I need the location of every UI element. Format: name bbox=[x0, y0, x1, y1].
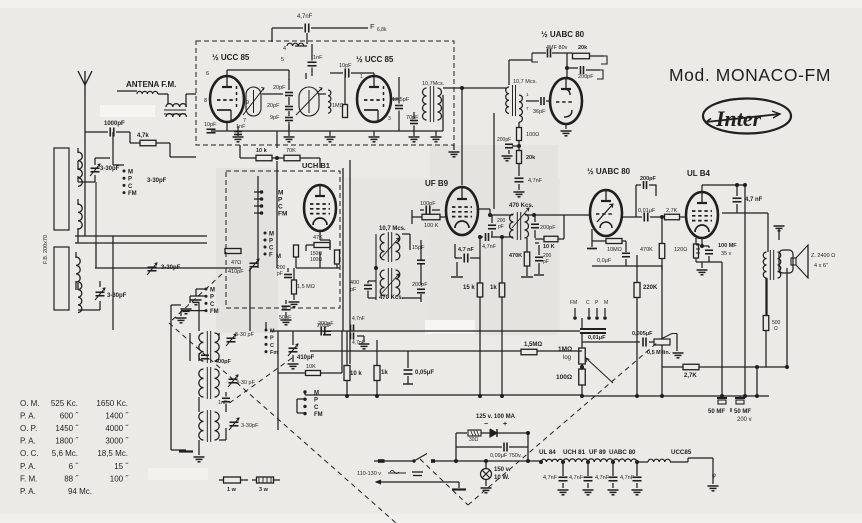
svg-text:1000pF: 1000pF bbox=[104, 121, 125, 127]
svg-text:200pF: 200pF bbox=[412, 282, 428, 288]
svg-text:P: P bbox=[278, 197, 283, 204]
svg-text:−: − bbox=[484, 421, 488, 428]
svg-text:120Ω: 120Ω bbox=[674, 247, 687, 253]
svg-text:M: M bbox=[269, 232, 274, 238]
svg-text:O. M.: O. M. bbox=[20, 399, 40, 408]
svg-text:½ UCC 85: ½ UCC 85 bbox=[356, 55, 394, 64]
svg-text:100 ˝: 100 ˝ bbox=[110, 474, 130, 483]
svg-text:C: C bbox=[314, 405, 319, 411]
svg-text:10,7 Mcs.: 10,7 Mcs. bbox=[513, 79, 537, 85]
svg-text:200pF: 200pF bbox=[497, 137, 511, 143]
svg-text:220K: 220K bbox=[643, 285, 658, 291]
svg-text:log: log bbox=[563, 355, 571, 361]
svg-text:2,7K: 2,7K bbox=[666, 208, 678, 214]
svg-text:Mod. MONACO-FM: Mod. MONACO-FM bbox=[669, 65, 831, 85]
svg-text:C: C bbox=[210, 302, 215, 308]
svg-text:Ω: Ω bbox=[774, 326, 778, 332]
svg-text:UCC85: UCC85 bbox=[671, 449, 692, 456]
svg-text:70K: 70K bbox=[286, 148, 296, 154]
svg-text:4,7nF: 4,7nF bbox=[482, 244, 497, 250]
svg-text:F.B. 200x70: F.B. 200x70 bbox=[43, 235, 49, 264]
svg-text:FM: FM bbox=[210, 309, 219, 315]
svg-text:0,01μF: 0,01μF bbox=[638, 208, 656, 214]
svg-text:P. A.: P. A. bbox=[20, 487, 36, 496]
svg-text:3-30 pF: 3-30 pF bbox=[235, 332, 255, 338]
svg-text:1400 ˝: 1400 ˝ bbox=[105, 412, 129, 421]
svg-text:94 Mc.: 94 Mc. bbox=[68, 487, 92, 496]
svg-text:UABC 80: UABC 80 bbox=[609, 449, 636, 456]
svg-text:F: F bbox=[269, 253, 273, 259]
svg-text:1: 1 bbox=[360, 74, 363, 80]
svg-text:M: M bbox=[604, 300, 608, 306]
svg-text:F. M.: F. M. bbox=[20, 474, 37, 483]
svg-text:C: C bbox=[269, 246, 274, 252]
svg-text:3-30pF: 3-30pF bbox=[100, 166, 120, 172]
svg-text:10,7 Mcs.: 10,7 Mcs. bbox=[379, 226, 406, 232]
svg-text:O. C.: O. C. bbox=[20, 449, 39, 458]
svg-text:20pF: 20pF bbox=[267, 103, 280, 109]
svg-text:125 v. 100 MA: 125 v. 100 MA bbox=[476, 414, 516, 420]
svg-text:10MΩ: 10MΩ bbox=[607, 247, 622, 253]
svg-text:525 Kc.: 525 Kc. bbox=[51, 399, 78, 408]
svg-text:6 ˝: 6 ˝ bbox=[69, 462, 80, 471]
svg-text:50 MF: 50 MF bbox=[708, 409, 725, 415]
svg-text:15pF: 15pF bbox=[412, 245, 425, 251]
svg-text:1k: 1k bbox=[381, 370, 388, 376]
svg-text:410pF: 410pF bbox=[297, 355, 315, 361]
svg-text:2: 2 bbox=[356, 93, 359, 99]
svg-text:4 x 6″: 4 x 6″ bbox=[814, 263, 828, 269]
svg-text:FM: FM bbox=[570, 300, 577, 306]
svg-text:4,7nF: 4,7nF bbox=[528, 178, 543, 184]
svg-text:P. A.: P. A. bbox=[20, 437, 36, 446]
svg-text:½ UABC 80: ½ UABC 80 bbox=[541, 30, 585, 39]
svg-text:10 k: 10 k bbox=[350, 371, 362, 377]
svg-text:UCH 81: UCH 81 bbox=[563, 449, 586, 456]
svg-text:100pF: 100pF bbox=[420, 201, 436, 207]
svg-text:47Ω: 47Ω bbox=[231, 260, 241, 266]
svg-text:4,7nF: 4,7nF bbox=[569, 475, 584, 481]
svg-text:200pF: 200pF bbox=[640, 176, 657, 182]
svg-text:FM: FM bbox=[128, 191, 137, 197]
svg-text:20k: 20k bbox=[526, 155, 536, 161]
svg-text:1 w: 1 w bbox=[227, 487, 237, 493]
svg-text:pF: pF bbox=[543, 259, 549, 265]
svg-text:F: F bbox=[370, 22, 375, 31]
svg-text:0,5 M lin.: 0,5 M lin. bbox=[647, 350, 671, 356]
svg-text:1450 ˝: 1450 ˝ bbox=[55, 424, 79, 433]
svg-text:10 k: 10 k bbox=[256, 148, 268, 154]
svg-text:10K: 10K bbox=[306, 364, 316, 370]
svg-text:3 w: 3 w bbox=[259, 487, 269, 493]
svg-text:88 ˝: 88 ˝ bbox=[64, 474, 79, 483]
svg-text:φ: φ bbox=[712, 473, 716, 479]
svg-text:600 ˝: 600 ˝ bbox=[60, 412, 80, 421]
svg-text:5,6 Mc.: 5,6 Mc. bbox=[52, 449, 78, 458]
svg-text:410pF: 410pF bbox=[228, 269, 244, 275]
svg-text:FM: FM bbox=[278, 211, 287, 218]
svg-text:12,5pF: 12,5pF bbox=[392, 97, 410, 103]
svg-text:30Ω: 30Ω bbox=[469, 437, 479, 443]
svg-text:UL B4: UL B4 bbox=[687, 169, 711, 178]
svg-text:½ UCC 85: ½ UCC 85 bbox=[212, 53, 250, 62]
svg-text:pF: pF bbox=[277, 271, 283, 277]
svg-text:M: M bbox=[276, 254, 281, 260]
svg-text:9pF: 9pF bbox=[270, 115, 280, 121]
svg-text:P: P bbox=[314, 398, 318, 404]
svg-text:10pF: 10pF bbox=[204, 122, 217, 128]
svg-text:1,5 MΩ: 1,5 MΩ bbox=[297, 284, 315, 290]
svg-text:200pF: 200pF bbox=[317, 323, 331, 329]
svg-text:4,7nF: 4,7nF bbox=[352, 340, 365, 346]
svg-text:200pF: 200pF bbox=[578, 74, 594, 80]
svg-text:4,7 nF: 4,7 nF bbox=[458, 247, 475, 253]
svg-text:pF: pF bbox=[498, 224, 504, 230]
svg-text:1k: 1k bbox=[490, 285, 497, 291]
svg-text:1650 Kc.: 1650 Kc. bbox=[96, 399, 128, 408]
svg-text:+: + bbox=[503, 421, 507, 428]
svg-text:4,7nF: 4,7nF bbox=[543, 475, 558, 481]
svg-text:P: P bbox=[128, 177, 132, 183]
svg-text:470K: 470K bbox=[640, 247, 653, 253]
svg-text:5: 5 bbox=[281, 57, 284, 63]
svg-text:C: C bbox=[270, 343, 274, 349]
svg-text:UF 89: UF 89 bbox=[589, 449, 606, 456]
svg-text:C: C bbox=[586, 300, 590, 306]
svg-text:4,7k: 4,7k bbox=[137, 133, 149, 139]
svg-text:20pF: 20pF bbox=[273, 85, 286, 91]
svg-text:400: 400 bbox=[350, 280, 359, 286]
svg-text:4,7nF: 4,7nF bbox=[620, 475, 635, 481]
svg-text:½ UABC 80: ½ UABC 80 bbox=[587, 167, 631, 176]
svg-text:3000 ˝: 3000 ˝ bbox=[105, 437, 129, 446]
svg-text:35 v: 35 v bbox=[721, 251, 732, 257]
svg-text:100Ω: 100Ω bbox=[556, 374, 572, 381]
svg-text:M: M bbox=[278, 190, 283, 197]
svg-text:200 v: 200 v bbox=[737, 417, 752, 423]
svg-text:50 MF: 50 MF bbox=[734, 409, 751, 415]
svg-text:10 K: 10 K bbox=[543, 244, 555, 250]
svg-text:Z. 2400 Ω: Z. 2400 Ω bbox=[811, 253, 835, 259]
svg-text:470K: 470K bbox=[509, 253, 522, 259]
svg-text:2,7K: 2,7K bbox=[684, 373, 697, 379]
svg-text:C: C bbox=[128, 184, 133, 190]
svg-text:UF B9: UF B9 bbox=[425, 179, 449, 188]
svg-text:0,01μF: 0,01μF bbox=[588, 335, 606, 341]
svg-text:0,0μF: 0,0μF bbox=[597, 258, 612, 264]
svg-text:1MΩ: 1MΩ bbox=[558, 346, 572, 353]
svg-text:470 Kcs.: 470 Kcs. bbox=[509, 203, 534, 209]
svg-text:M: M bbox=[210, 288, 215, 294]
svg-text:200pF: 200pF bbox=[540, 225, 556, 231]
svg-text:pF: pF bbox=[350, 287, 357, 293]
svg-text:3-30pF: 3-30pF bbox=[147, 178, 167, 184]
svg-text:1,5MΩ: 1,5MΩ bbox=[524, 342, 542, 348]
svg-text:UL 84: UL 84 bbox=[539, 449, 556, 456]
svg-text:8: 8 bbox=[204, 98, 207, 104]
svg-text:6: 6 bbox=[206, 71, 209, 77]
svg-text:P: P bbox=[270, 336, 274, 342]
svg-text:1nF: 1nF bbox=[313, 55, 323, 61]
svg-text:C: C bbox=[278, 204, 283, 211]
svg-text:M: M bbox=[314, 391, 319, 397]
svg-text:100 K: 100 K bbox=[424, 223, 439, 229]
svg-text:3-30pF: 3-30pF bbox=[107, 293, 127, 299]
svg-text:36pF: 36pF bbox=[533, 109, 546, 115]
svg-text:110-130 v: 110-130 v bbox=[357, 471, 381, 477]
svg-text:100 MF: 100 MF bbox=[718, 243, 737, 249]
svg-text:400pF: 400pF bbox=[215, 359, 232, 365]
svg-text:150 v.: 150 v. bbox=[494, 467, 511, 473]
svg-text:4,7nF: 4,7nF bbox=[352, 316, 365, 322]
svg-text:UCH B1: UCH B1 bbox=[302, 161, 330, 170]
svg-text:6,8k: 6,8k bbox=[377, 27, 387, 33]
svg-text:0,005μF: 0,005μF bbox=[632, 331, 653, 337]
svg-text:M: M bbox=[128, 170, 133, 176]
svg-text:100Ω: 100Ω bbox=[526, 132, 539, 138]
svg-text:15 ˝: 15 ˝ bbox=[114, 462, 129, 471]
svg-text:P. A.: P. A. bbox=[20, 412, 36, 421]
svg-text:Fm: Fm bbox=[270, 350, 278, 356]
svg-text:10pF: 10pF bbox=[339, 63, 352, 69]
svg-text:18,5 Mc.: 18,5 Mc. bbox=[97, 449, 128, 458]
svg-text:O. P.: O. P. bbox=[20, 424, 37, 433]
svg-text:1800 ˝: 1800 ˝ bbox=[55, 437, 79, 446]
svg-text:ANTENA F.M.: ANTENA F.M. bbox=[126, 80, 176, 89]
svg-text:4: 4 bbox=[283, 46, 286, 52]
svg-text:P: P bbox=[210, 295, 214, 301]
svg-text:3: 3 bbox=[388, 116, 391, 122]
svg-text:P. A.: P. A. bbox=[20, 462, 36, 471]
svg-text:20k: 20k bbox=[578, 45, 588, 51]
svg-text:FM: FM bbox=[314, 412, 323, 418]
svg-text:0,05μF: 0,05μF bbox=[415, 370, 434, 376]
svg-text:4,7nF: 4,7nF bbox=[595, 475, 610, 481]
svg-text:0,09μF 750v.: 0,09μF 750v. bbox=[490, 453, 522, 459]
svg-text:4,7 nF: 4,7 nF bbox=[745, 197, 763, 203]
svg-text:4000 ˝: 4000 ˝ bbox=[105, 424, 129, 433]
svg-text:15 k: 15 k bbox=[463, 285, 475, 291]
svg-text:4MF 80v: 4MF 80v bbox=[546, 45, 568, 51]
svg-text:3-30pF: 3-30pF bbox=[241, 423, 259, 429]
svg-text:P: P bbox=[269, 239, 273, 245]
svg-text:M: M bbox=[270, 329, 275, 335]
svg-text:4,7nF: 4,7nF bbox=[297, 14, 313, 20]
